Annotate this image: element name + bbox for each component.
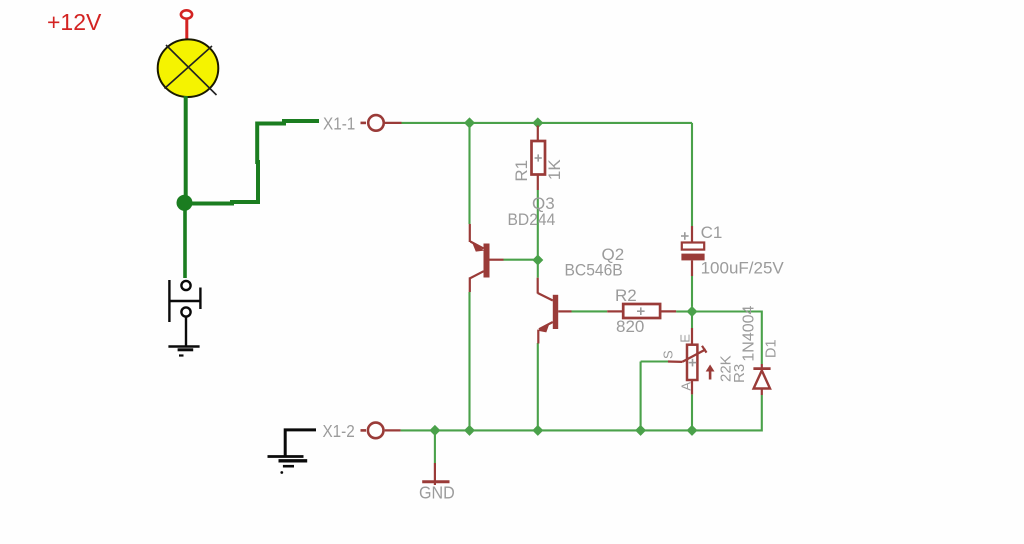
svg-text:X1-2: X1-2 — [323, 421, 355, 441]
wire Q3 base to junction — [504, 259, 538, 261]
svg-text:+12V: +12V — [47, 9, 102, 35]
svg-text:GND: GND — [419, 483, 455, 503]
transistor Q2 BC546B (NPN) — [538, 278, 572, 344]
wire lamp to junction (hand-drawn thick) — [184, 96, 188, 203]
svg-text:820: 820 — [616, 317, 644, 336]
supply pin circle — [181, 10, 192, 18]
ground (hand-drawn, below switch) — [168, 347, 199, 356]
capacitor C1 — [681, 226, 705, 276]
ground (hand-drawn, left of X1-2) — [268, 430, 317, 474]
transistor Q3 BD244 (PNP) — [470, 224, 504, 292]
wire Q2 base to R2 — [572, 310, 608, 312]
svg-text:BC546B: BC546B — [565, 261, 623, 280]
wire junction to D1 top — [692, 312, 762, 365]
wire junction to switch (hand-drawn thick) — [183, 208, 187, 278]
junction diamonds — [429, 117, 697, 436]
wire junction to X1-1 (hand-drawn thick) — [190, 121, 319, 204]
svg-text:R1: R1 — [512, 160, 531, 182]
wire R2 to junction — [676, 310, 692, 312]
svg-text:1K: 1K — [545, 159, 564, 180]
wire base junction to Q2 collector — [537, 260, 539, 278]
resistor R1 — [532, 126, 546, 191]
supply wire — [185, 19, 188, 41]
wire junction to R3 top — [691, 312, 693, 329]
resistor R2 — [607, 304, 676, 318]
arrow up — [709, 369, 712, 380]
connector X1-1 pad — [361, 115, 402, 131]
connector X1-2 pad — [361, 423, 401, 439]
lamp LP1 — [158, 39, 219, 97]
svg-text:D1: D1 — [764, 339, 780, 358]
ground GND (eagle) — [422, 463, 449, 485]
svg-text:BD244: BD244 — [508, 210, 556, 229]
switch S1 (push button, hand-drawn) — [169, 280, 200, 346]
svg-text:S: S — [661, 350, 676, 359]
node junction dot (hand-drawn) — [177, 195, 193, 211]
wire corner down to C1 top — [691, 123, 693, 226]
svg-text:A: A — [678, 382, 693, 391]
svg-text:R3: R3 — [731, 364, 748, 383]
svg-text:R2: R2 — [615, 286, 637, 305]
wire R1 bottom to base junction — [537, 190, 539, 260]
potentiometer R3 22K — [668, 328, 715, 394]
wire Q3 emitter column — [468, 123, 470, 224]
wire C1 bottom to R2 junction — [691, 276, 693, 307]
wire D1 bottom to bottom rail — [401, 395, 762, 430]
svg-text:X1-1: X1-1 — [323, 113, 355, 133]
diode D1 1N4004 — [753, 364, 770, 395]
wire R3 wiper — [641, 360, 668, 362]
svg-text:1N4004: 1N4004 — [740, 305, 757, 361]
svg-text:E: E — [678, 334, 693, 343]
wire R3 bottom to rail — [691, 394, 693, 430]
wire Q3 collector to bottom rail — [468, 292, 470, 430]
wire GND stub — [434, 430, 436, 463]
wire wiper column to rail — [640, 362, 642, 431]
svg-text:C1: C1 — [701, 223, 723, 242]
net wires green — [401, 123, 762, 463]
wire Q2 emitter to bottom rail — [537, 343, 539, 430]
wire top rail X1-1 to corner — [402, 122, 693, 124]
svg-text:100uF/25V: 100uF/25V — [701, 258, 785, 277]
